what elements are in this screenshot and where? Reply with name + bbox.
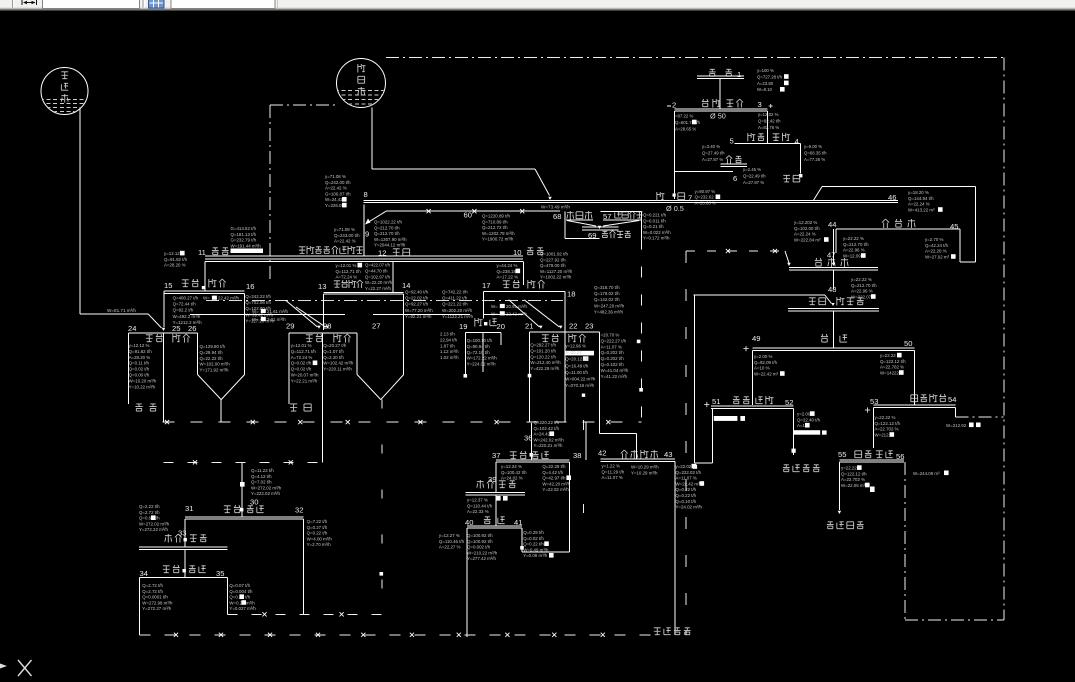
svg-text:1.02 m³/h: 1.02 m³/h (440, 355, 459, 360)
svg-text:A=22.702 %: A=22.702 % (841, 477, 865, 482)
text rows column 16 (245, 294, 274, 323)
svg-text:Y=22.27 m³/h: Y=22.27 m³/h (365, 286, 392, 291)
white bar box 21-23 (565, 351, 594, 361)
label W 54 (946, 423, 981, 429)
text block 13 above (336, 263, 363, 280)
svg-text:y=22.22: y=22.22 (841, 466, 857, 471)
tailings press filter 55-56 (wei-mei ya-lv) (838, 450, 905, 514)
magnetic separator 34-35 (er-duan ci-xuan) (140, 549, 228, 635)
svg-text:43: 43 (664, 450, 672, 459)
svg-text:Q=1220.89 t/h: Q=1220.89 t/h (482, 214, 511, 219)
text block 11 left (164, 251, 188, 268)
pulp preparer 48 (kuang-jiang chu-li-qi) (788, 270, 879, 311)
magnetic separator 40-41 (ci-xuan) (465, 495, 524, 637)
text block 39 (467, 496, 508, 514)
label middlings product (135, 404, 156, 411)
text block 52 (797, 411, 821, 428)
svg-text:Q=212.72 t/h: Q=212.72 t/h (482, 225, 508, 230)
text block left of 19 (440, 332, 459, 361)
hand-sorting box 5 reject (pai-gan) (730, 133, 803, 177)
text rows 14 col1 (405, 290, 433, 319)
svg-text:W=81.71 m³/h: W=81.71 m³/h (107, 308, 136, 313)
svg-text:Q=22.40 t/h: Q=22.40 t/h (797, 417, 821, 422)
svg-text:A=11.07 %: A=11.07 % (602, 475, 623, 480)
svg-text:A=22.20 %: A=22.20 % (925, 249, 947, 254)
svg-text:16: 16 (246, 282, 254, 291)
svg-text:6: 6 (733, 174, 737, 183)
wire medium dashed horizontal y251 (686, 249, 791, 266)
svg-text:Q=100.42 t/h: Q=100.42 t/h (501, 470, 527, 475)
svg-text:33: 33 (178, 529, 186, 538)
svg-text:Q=22.29 t/h: Q=22.29 t/h (542, 464, 566, 469)
svg-text:Q=2.72 t/h: Q=2.72 t/h (142, 589, 163, 594)
boundary dash-dot horizontal left (270, 104, 337, 106)
svg-text:W=0.49 m³/h: W=0.49 m³/h (523, 547, 549, 552)
svg-text:A=22.702 %: A=22.702 % (875, 427, 899, 432)
svg-text:Q=0.22 t/h: Q=0.22 t/h (676, 493, 697, 498)
label W=73.49 (541, 205, 570, 210)
svg-text:A=82.76 %: A=82.76 % (758, 125, 779, 130)
svg-text:Y=10.22 m³/h: Y=10.22 m³/h (129, 384, 156, 389)
svg-text:y=3.40 %: y=3.40 % (702, 144, 720, 149)
svg-text:y=12.96 %: y=12.96 % (565, 344, 586, 349)
svg-text:Q=72.44 t/h: Q=72.44 t/h (173, 302, 197, 307)
svg-text:45: 45 (950, 222, 958, 231)
UCS icon X label (18, 660, 32, 676)
svg-text:W=41.04 m³/h: W=41.04 m³/h (601, 368, 629, 373)
svg-text:Q=110.44 t/h: Q=110.44 t/h (467, 503, 493, 508)
text block 18 above (497, 263, 521, 280)
label 10 clean coal (513, 248, 544, 257)
svg-text:W=102.00 m³/h: W=102.00 m³/h (200, 362, 231, 367)
toolbar input field 1 (43, 0, 140, 9)
text block clean coal totals (540, 252, 573, 280)
svg-text:17: 17 (482, 281, 490, 290)
text block 41 (523, 530, 553, 558)
svg-text:Q=1001.92 t/h: Q=1001.92 t/h (540, 252, 569, 257)
svg-text:Q=22.49 t/h: Q=22.49 t/h (743, 173, 766, 178)
svg-text:Y=2.70 m³/h: Y=2.70 m³/h (307, 542, 332, 547)
svg-text:Q=222.02 t/h: Q=222.02 t/h (676, 470, 702, 475)
svg-text:W=004.22 m³/h: W=004.22 m³/h (565, 377, 596, 382)
svg-text:Y=1900.72 m³/h: Y=1900.72 m³/h (482, 237, 514, 242)
text block left y71 second (334, 227, 360, 244)
svg-text:y=44.24 %: y=44.24 % (497, 263, 518, 268)
product header double line (205, 259, 523, 261)
svg-text:Q=0.002 t/h: Q=0.002 t/h (467, 545, 491, 550)
svg-text:W=: W= (491, 304, 498, 309)
svg-text:Q=144.94 t/h: Q=144.94 t/h (908, 196, 934, 201)
svg-text:1: 1 (737, 70, 741, 79)
svg-text:1.12 m³/h: 1.12 m³/h (440, 349, 459, 354)
product header sump bottom line (205, 255, 523, 257)
svg-text:27: 27 (372, 322, 380, 331)
wire medium dashed vertical x686 (685, 251, 687, 635)
svg-text:2.13 t/h: 2.13 t/h (440, 332, 455, 337)
svg-text:Q=1022.22 t/h: Q=1022.22 t/h (374, 220, 403, 225)
text block 19 (467, 338, 498, 367)
svg-text:W=8.10: W=8.10 (757, 87, 773, 92)
text block sorting left (702, 144, 725, 162)
text block 27 (323, 343, 354, 372)
text block 48 (851, 277, 877, 299)
svg-text:Y=1002.22 m³/h: Y=1002.22 m³/h (540, 275, 572, 280)
text block 32 (307, 519, 333, 547)
text block 40 mid (467, 533, 498, 561)
label three-product dense-medium cyclone (299, 246, 363, 254)
svg-text:Q=2.72 t/h: Q=2.72 t/h (142, 583, 163, 588)
svg-text:Ø 0.5: Ø 0.5 (666, 204, 684, 213)
svg-text:W=272.02 m³/h: W=272.02 m³/h (139, 521, 170, 526)
svg-text:34: 34 (140, 569, 148, 578)
svg-text:A=22.42 %: A=22.42 % (334, 239, 356, 244)
svg-text:Q=4.42 t/h: Q=4.42 t/h (542, 470, 563, 475)
text block 46 (908, 190, 943, 212)
centrifuge 42-43 (li-xin tuo-shui) (598, 332, 675, 635)
text block 21 (530, 343, 561, 372)
svg-text:Q=0.21 t/h: Q=0.21 t/h (643, 224, 664, 229)
white bar 52 (794, 430, 827, 435)
svg-text:W=0.022 m³/h: W=0.022 m³/h (643, 230, 671, 235)
svg-text:A=28.20 %: A=28.20 % (164, 263, 186, 268)
svg-text:Q=0.0001 t/h: Q=0.0001 t/h (142, 595, 168, 600)
svg-text:21: 21 (525, 322, 533, 331)
svg-text:Y=277.42 m³/h: Y=277.42 m³/h (467, 556, 496, 561)
svg-text:Q=68.35 t/h: Q=68.35 t/h (804, 150, 827, 155)
svg-text:Q=181.13 t/h: Q=181.13 t/h (231, 232, 257, 237)
svg-text:Q=110.46 t/h: Q=110.46 t/h (439, 539, 465, 544)
text block 33 (0, 0, 1, 1)
boundary dash-dot vertical x905 (904, 462, 906, 620)
svg-text:15: 15 (164, 281, 172, 290)
svg-text:Q=11.00 t/h: Q=11.00 t/h (565, 370, 588, 375)
svg-text:Q=112.71 t/h: Q=112.71 t/h (336, 269, 362, 274)
label 11 middlings (zhong-mei) (198, 248, 229, 257)
svg-text:W=172.22 m³/h: W=172.22 m³/h (467, 356, 498, 361)
label gangue product (290, 404, 311, 411)
svg-text:39: 39 (488, 475, 496, 484)
text block 55 (841, 465, 870, 488)
svg-text:Y=24.02 m³/h: Y=24.02 m³/h (676, 505, 703, 510)
svg-text:50: 50 (904, 339, 912, 348)
text block upper-left y71 (325, 174, 351, 208)
svg-text:19: 19 (459, 322, 467, 331)
wire medium line2 y462 (164, 422, 323, 464)
boundary dash-dot horizontal bottom (905, 619, 1004, 621)
svg-text:A=23.80: A=23.80 (757, 81, 774, 86)
svg-text:13: 13 (318, 282, 326, 291)
label flotation tailings (827, 522, 864, 529)
svg-text:55: 55 (838, 450, 846, 459)
svg-text:Q=42.24 t/h: Q=42.24 t/h (925, 243, 949, 248)
svg-text:Q=0.22 t/h: Q=0.22 t/h (307, 531, 328, 536)
wire circulating-water to screen (372, 108, 552, 201)
svg-text:Q=120.22 t/h: Q=120.22 t/h (530, 354, 556, 359)
svg-text:W=42.20 m³/h: W=42.20 m³/h (542, 481, 570, 486)
dilute medium tank 39 (xi-jie-zhi-tong) (465, 475, 525, 495)
svg-text:W=12.09: W=12.09 (843, 253, 861, 258)
svg-text:37: 37 (492, 451, 500, 460)
svg-text:Q=212.70 t/h: Q=212.70 t/h (374, 231, 400, 236)
text block 25-26 (200, 344, 231, 373)
svg-text:y=12.37 %: y=12.37 % (467, 498, 488, 503)
svg-text:A=77.26 %: A=77.26 % (804, 157, 825, 162)
svg-text:G=413.52 t/h: G=413.52 t/h (231, 226, 257, 231)
svg-text:W=247.20 m³/h: W=247.20 m³/h (594, 303, 625, 308)
svg-text:Q=129.80 t/h: Q=129.80 t/h (200, 344, 226, 349)
svg-text:Q=0.10 t/h: Q=0.10 t/h (676, 499, 697, 504)
svg-text:W=24.42: W=24.42 (325, 197, 343, 202)
svg-text:Q=101.20 t/h: Q=101.20 t/h (530, 348, 556, 353)
text block under sump (365, 263, 393, 292)
tailings thickener 53-54 (wei-mei nong-suo) (865, 394, 1004, 448)
svg-text:A=17.22 %: A=17.22 % (497, 275, 519, 280)
svg-text:y=12.01 %: y=12.01 % (336, 263, 357, 268)
svg-text:Y=220.11 m³/h: Y=220.11 m³/h (323, 367, 352, 372)
text block crusher (743, 167, 766, 185)
screen 24-26 secondary de-medium (128, 324, 245, 422)
svg-text:49: 49 (752, 334, 760, 343)
text block raw-coal (757, 68, 789, 92)
svg-text:Q=22.22 t/h: Q=22.22 t/h (200, 356, 224, 361)
svg-text:G=232.79 t/h: G=232.79 t/h (231, 238, 257, 243)
svg-text:=87.22 %: =87.22 % (675, 114, 693, 119)
screen 17-18 primary de-medium (482, 262, 575, 333)
svg-text:Q=0.07 t/h: Q=0.07 t/h (229, 583, 250, 588)
svg-text:Q=710.89 t/h: Q=710.89 t/h (482, 219, 508, 224)
svg-text:44: 44 (828, 220, 836, 229)
boundary dash-dot vertical right (1003, 58, 1005, 621)
buffer pool 47 (huan-chong-chi) (789, 229, 878, 270)
svg-text:42: 42 (598, 449, 606, 458)
svg-text:Q=0.22 t/h: Q=0.22 t/h (523, 542, 544, 547)
svg-text:Q=112.71 t/h: Q=112.71 t/h (291, 349, 317, 354)
text block 53 (875, 415, 901, 437)
svg-text:51: 51 (712, 397, 720, 406)
text block 44 (794, 220, 829, 242)
svg-text:Q=122.12 t/h: Q=122.12 t/h (841, 471, 867, 476)
wire 36 feed (524, 423, 533, 460)
white square near 56 edge (870, 487, 875, 493)
svg-text:Q=292.27 t/h: Q=292.27 t/h (530, 343, 556, 348)
svg-text:W=22.06 m³: W=22.06 m³ (841, 483, 866, 488)
svg-text:Q=0.29 t/h: Q=0.29 t/h (523, 530, 544, 535)
water distribution line y314 (190, 314, 523, 316)
svg-text:y=12.01 %: y=12.01 % (291, 343, 312, 348)
svg-text:Q=72.10 t/h: Q=72.10 t/h (467, 350, 491, 355)
svg-text:W=73.49 m³/h: W=73.49 m³/h (541, 205, 570, 210)
svg-text:31: 31 (185, 504, 193, 513)
toolbar background (0, 0, 1075, 11)
text block sorting right (804, 144, 827, 162)
svg-text:Y=272.27 m³/h: Y=272.27 m³/h (142, 606, 171, 611)
magnetic separator 31-32 (yi-duan ci-xuan) (185, 504, 304, 614)
svg-text:y=22.22 %: y=22.22 % (843, 236, 864, 241)
svg-text:Q=7.22 t/h: Q=7.22 t/h (307, 519, 328, 524)
svg-text:W=1202.78 m³/h: W=1202.78 m³/h (482, 231, 515, 236)
svg-text:Q=102.00 t/h: Q=102.00 t/h (794, 226, 820, 231)
svg-text:W=272.02 m³/h: W=272.02 m³/h (251, 485, 282, 490)
svg-text:W=77.20 m³/h: W=77.20 m³/h (405, 308, 433, 313)
text block middlings totals (231, 226, 262, 248)
toolbar input field 2 (171, 0, 278, 9)
clean-coal filter 51-52 (jing-mei guo-lv) (693, 295, 794, 469)
label flotation clean coal (783, 465, 820, 472)
text rows screen 15 (173, 296, 240, 325)
svg-text:W=242.02 m³/h: W=242.02 m³/h (534, 437, 565, 442)
svg-text:A=22.702 %: A=22.702 % (880, 365, 904, 370)
svg-text:y=22.22 %: y=22.22 % (851, 277, 872, 282)
text block 42 left (602, 464, 625, 481)
boundary dash-dot horizontal mid y300 (206, 299, 563, 301)
svg-text:A=22.27 %: A=22.27 % (439, 545, 461, 550)
svg-text:Q=318.70 t/h: Q=318.70 t/h (594, 285, 620, 290)
svg-text:W=: W= (491, 311, 498, 316)
svg-text:Ø 50: Ø 50 (710, 112, 726, 121)
magnetic separator 37-38 (yi-duan ci-xuan) (492, 451, 581, 552)
dilute medium tank 33 (139, 529, 228, 550)
svg-text:Y=224.02 m³/h: Y=224.02 m³/h (467, 362, 496, 367)
svg-text:W=202.20 m³/h: W=202.20 m³/h (442, 308, 473, 313)
launder line with spray markers (365, 209, 560, 224)
text block 28 left (291, 343, 319, 383)
text block launder 60 (482, 214, 515, 242)
svg-text:Q=22.02 t/h: Q=22.02 t/h (405, 296, 429, 301)
svg-text:W=191.44 m³/h: W=191.44 m³/h (231, 243, 262, 248)
svg-text:Q=100.10 t/h: Q=100.10 t/h (467, 338, 493, 343)
svg-text:Y=482.36 m³/h: Y=482.36 m³/h (594, 309, 623, 314)
wire medium line3 y615 (228, 400, 383, 617)
svg-text:Y=222.02 m³/h: Y=222.02 m³/h (251, 491, 280, 496)
svg-text:Q=11.22 t/h: Q=11.22 t/h (251, 468, 274, 473)
svg-text:Q=242.22 t/h: Q=242.22 t/h (245, 294, 271, 299)
svg-text:y=9.00 %: y=9.00 % (804, 144, 822, 149)
boundary dash-dot vertical left (269, 105, 271, 281)
svg-text:Q=400.27 t/h: Q=400.27 t/h (173, 296, 199, 301)
svg-text:W=20.07 m³/h: W=20.07 m³/h (291, 373, 319, 378)
crusher 6 (po-sui) (720, 156, 747, 184)
svg-text:11: 11 (198, 248, 206, 257)
svg-text:W=: W= (252, 317, 259, 322)
svg-text:y=18.20 %: y=18.20 % (908, 190, 929, 195)
svg-text:Y=22.21 m³/h: Y=22.21 m³/h (291, 378, 318, 383)
text block 31 (139, 504, 170, 532)
svg-text:Q=0.02 t/h: Q=0.02 t/h (523, 536, 544, 541)
svg-text:A=10 %: A=10 % (754, 366, 770, 371)
svg-text:60: 60 (464, 211, 472, 220)
svg-text:Y=0.027 m³/h: Y=0.027 m³/h (229, 606, 256, 611)
svg-text:Q=11.29 t/h: Q=11.29 t/h (602, 469, 625, 474)
wire medium return down x641 (637, 239, 643, 423)
screen 21-23 secondary de-medium (525, 322, 600, 460)
svg-text:A=22.24 %: A=22.24 % (794, 232, 816, 237)
svg-text:Q=27.49 t/h: Q=27.49 t/h (702, 150, 725, 155)
text block screen-2 right (758, 112, 781, 130)
svg-text:Y=171.92 m³/h: Y=171.92 m³/h (200, 368, 229, 373)
text block desliming y90 (695, 189, 721, 205)
svg-text:W=212.40 m³/h: W=212.40 m³/h (530, 360, 561, 365)
wire clean-coal feed to 48 (693, 295, 834, 306)
svg-text:A=27.87 %: A=27.87 % (743, 180, 764, 185)
svg-text:W=: W= (203, 296, 210, 301)
svg-text:y=22.02: y=22.02 (676, 464, 692, 469)
svg-text:Q=92.27 t/h: Q=92.27 t/h (405, 302, 429, 307)
svg-text:y=2.00: y=2.00 (797, 412, 811, 417)
svg-text:Y=226.09: Y=226.09 (325, 203, 344, 208)
svg-text:38: 38 (573, 451, 581, 460)
svg-text:W=210.22 m³/h: W=210.22 m³/h (467, 550, 498, 555)
svg-text:22.94 t/h: 22.94 t/h (440, 337, 458, 342)
wire medium line4 y635 main return (140, 633, 652, 637)
svg-text:W=22.42 m³: W=22.42 m³ (676, 481, 701, 486)
svg-text:A=11.07 %: A=11.07 % (601, 344, 622, 349)
label main clean-coal medium return (654, 628, 691, 635)
svg-text:Q=102.97 t/h: Q=102.97 t/h (365, 274, 391, 279)
toolbar icon dimension-arrow (22, 0, 37, 5)
svg-text:Q=0.011 t/h: Q=0.011 t/h (643, 218, 666, 223)
svg-text:y=71.08 %: y=71.08 % (334, 227, 355, 232)
svg-text:W=142222: W=142222 (880, 370, 902, 375)
svg-text:Q=0.11 t/h: Q=0.11 t/h (129, 361, 150, 366)
svg-text:y=12.24 %: y=12.24 % (501, 464, 522, 469)
svg-text:Q=212.70 t/h: Q=212.70 t/h (851, 283, 877, 288)
text block 49 (754, 354, 785, 376)
toolbar separator 2 (143, 0, 145, 8)
text block 37 (501, 464, 527, 481)
svg-text:Y=220.21 m³/h: Y=220.21 m³/h (534, 443, 563, 448)
svg-text:A=72.24 %: A=72.24 % (291, 355, 313, 360)
wire makeup-water down (80, 109, 165, 331)
svg-text:y=71.08 %: y=71.08 % (325, 174, 346, 179)
svg-text:A=24.42: A=24.42 (534, 432, 551, 437)
flotation 49-50 (fu-xuan) (743, 311, 914, 405)
svg-text:A=22.42 %: A=22.42 % (325, 186, 347, 191)
svg-text:2: 2 (672, 101, 676, 110)
svg-text:Q=0.102 t/h: Q=0.102 t/h (601, 362, 625, 367)
svg-text:W=244.09 m³: W=244.09 m³ (913, 471, 940, 476)
svg-text:y=2.70 %: y=2.70 % (925, 237, 944, 242)
svg-text:32: 32 (295, 506, 303, 515)
svg-text:A=28.65 %: A=28.65 % (675, 126, 696, 131)
svg-text:Q=221.22 t/h: Q=221.22 t/h (442, 302, 468, 307)
svg-text:y=12.202 %: y=12.202 % (794, 220, 817, 225)
toolbar icon table-grid (149, 0, 165, 8)
svg-text:Q=29.94 t/h: Q=29.94 t/h (200, 350, 224, 355)
svg-text:W=272.98 m³/h: W=272.98 m³/h (142, 600, 173, 605)
svg-text:W=27.02 m³: W=27.02 m³ (925, 254, 950, 259)
dense-medium tank 69 box (565, 211, 641, 240)
svg-text:A=24.02 %: A=24.02 % (501, 476, 523, 481)
svg-text:36: 36 (524, 434, 532, 443)
svg-text:y=12.02 %: y=12.02 % (758, 112, 779, 117)
svg-text:Y=2044.12 m³/h: Y=2044.12 m³/h (374, 243, 406, 248)
svg-text:25: 25 (172, 324, 180, 333)
svg-text:Q=2.72 t/h: Q=2.72 t/h (139, 510, 160, 515)
svg-text:Q=91.82 t/h: Q=91.82 t/h (129, 349, 153, 354)
svg-text:Q=92.40 t/h: Q=92.40 t/h (405, 290, 429, 295)
svg-text:21.61 m³/h: 21.61 m³/h (267, 309, 289, 314)
toolbar separator 1 (13, 0, 15, 8)
svg-text:28: 28 (323, 322, 331, 331)
svg-text:W=10.20 m³/h: W=10.20 m³/h (129, 378, 157, 383)
boundary dash-dot horizontal top (386, 57, 1004, 59)
svg-text:26: 26 (188, 324, 196, 333)
text block 42 below (676, 464, 705, 510)
svg-text:Q=92.42 t/h: Q=92.42 t/h (758, 118, 781, 123)
svg-text:A=22.24 %: A=22.24 % (908, 202, 930, 207)
svg-text:5: 5 (730, 137, 734, 146)
svg-text:A=22.96 %: A=22.96 % (843, 248, 865, 253)
